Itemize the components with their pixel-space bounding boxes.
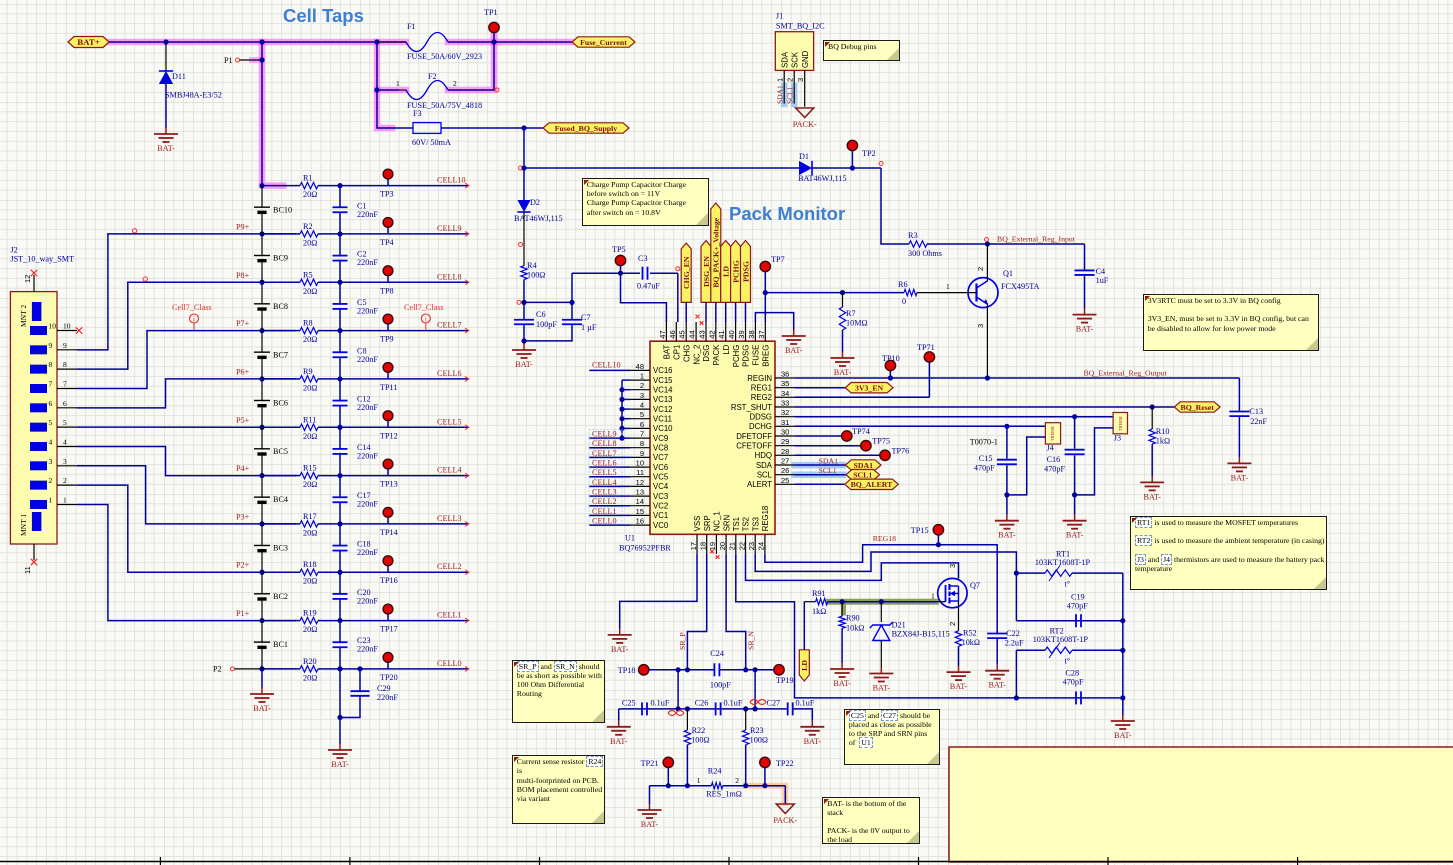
svg-text:BAT-: BAT- xyxy=(331,760,349,769)
wire TS3 net xyxy=(755,552,1016,573)
wire VC stub xyxy=(622,379,631,381)
junction row2 cap xyxy=(337,570,342,575)
port BQ_ALERT xyxy=(845,479,899,489)
junction VC bus xyxy=(619,387,624,392)
svg-text:VC5: VC5 xyxy=(653,473,669,482)
svg-text:220nF: 220nF xyxy=(357,258,378,267)
wire to R3 xyxy=(881,168,909,244)
wire SCL net xyxy=(795,474,846,476)
svg-text:7: 7 xyxy=(49,379,53,388)
wire supply to D1 xyxy=(524,167,799,169)
svg-text:RST_SHUT: RST_SHUT xyxy=(731,403,772,412)
wire shunt left ground xyxy=(649,786,651,804)
svg-text:11: 11 xyxy=(23,566,32,574)
ground BAT- cell ladder xyxy=(339,744,341,750)
wire VC stub xyxy=(622,427,631,429)
wire J2 pin 8 fan xyxy=(77,282,296,369)
svg-text:CHG_EN: CHG_EN xyxy=(682,256,691,289)
wire SDA net xyxy=(795,464,846,466)
svg-text:10MΩ: 10MΩ xyxy=(846,319,868,328)
svg-text:TP20: TP20 xyxy=(380,673,398,682)
svg-text:1: 1 xyxy=(640,372,644,381)
junction row0 left xyxy=(259,666,264,671)
junction row1 left xyxy=(259,618,264,623)
resistor R11 20ohm xyxy=(296,426,300,428)
svg-text:VC1: VC1 xyxy=(653,511,668,520)
svg-text:C15: C15 xyxy=(979,454,993,463)
svg-text:470pF: 470pF xyxy=(1063,678,1084,687)
svg-text:7: 7 xyxy=(640,430,644,439)
transistor Q7 MOSFET xyxy=(938,578,967,607)
wire BAT+ main xyxy=(109,41,406,43)
svg-text:CHG: CHG xyxy=(682,345,691,362)
svg-text:BC9: BC9 xyxy=(273,254,288,263)
svg-text:2: 2 xyxy=(948,622,957,626)
svg-text:J2: J2 xyxy=(10,246,17,255)
svg-text:Cell7_Class: Cell7_Class xyxy=(404,303,444,312)
capacitor C3 0.47uF xyxy=(642,267,644,280)
port BAT+ xyxy=(68,37,109,48)
svg-text:R17: R17 xyxy=(303,512,317,521)
no-connect pin44 xyxy=(696,315,700,319)
wire node to C7 xyxy=(524,301,572,303)
wire VC stub xyxy=(622,389,631,391)
svg-text:SCL1: SCL1 xyxy=(786,86,795,104)
wire TS2 net xyxy=(746,554,959,581)
svg-text:D21: D21 xyxy=(892,621,906,630)
svg-text:DFETOFF: DFETOFF xyxy=(736,432,772,441)
U1 left pin 11 VC5 xyxy=(631,476,650,478)
capacitor C4 1uF xyxy=(1084,244,1086,270)
wire J2 pin 6 fan xyxy=(77,379,296,408)
svg-text:CELL10: CELL10 xyxy=(437,176,466,185)
svg-text:45: 45 xyxy=(678,330,687,338)
svg-text:J1: J1 xyxy=(776,12,783,21)
svg-text:TP14: TP14 xyxy=(380,528,398,537)
wire RT1 row xyxy=(1016,572,1045,574)
wire J2 pin 7 fan xyxy=(77,331,296,389)
wire Q1 emitter xyxy=(986,305,988,379)
svg-text:VC14: VC14 xyxy=(653,386,673,395)
testpoint TP9 xyxy=(387,324,389,331)
svg-text:TP74: TP74 xyxy=(852,427,870,436)
svg-text:VC10: VC10 xyxy=(653,424,673,433)
note SR_P SR_N routing xyxy=(512,660,605,723)
testpoint TP12 xyxy=(387,420,389,427)
connector J2 pin 8 xyxy=(30,365,47,374)
resistor R24 RES_1mOhm xyxy=(711,783,722,789)
junction row6 left xyxy=(259,376,264,381)
wire HDQ to TP76 xyxy=(795,454,885,456)
U1 right pin 25 ALERT xyxy=(775,483,795,485)
svg-text:2.2uF: 2.2uF xyxy=(1005,639,1024,648)
junction F2 trunk xyxy=(374,87,379,92)
wire row CELL4 right xyxy=(322,475,468,477)
svg-text:16: 16 xyxy=(636,517,644,526)
capacitor BC7 battery cell xyxy=(261,331,263,353)
U1 top pin 40 PCHG xyxy=(735,322,737,341)
wire J2 pin5 to P5+ xyxy=(77,426,296,428)
svg-text:20Ω: 20Ω xyxy=(303,383,317,392)
svg-text:SCL1: SCL1 xyxy=(853,471,872,480)
wire DDSG net xyxy=(795,416,1114,418)
svg-text:BQ_External_Reg_Input: BQ_External_Reg_Input xyxy=(997,235,1076,244)
svg-text:C25: C25 xyxy=(622,699,636,708)
svg-text:0.1uF: 0.1uF xyxy=(796,699,815,708)
svg-text:2: 2 xyxy=(786,78,795,82)
wire DFETOFF to TP74 xyxy=(795,435,847,437)
svg-text:R24: R24 xyxy=(708,767,722,776)
wire row CELL10 right xyxy=(322,185,468,187)
junction fused supply xyxy=(521,125,526,130)
capacitor BC10 battery cell xyxy=(261,186,263,208)
svg-text:D11: D11 xyxy=(172,72,186,81)
junction C16 top xyxy=(1072,414,1077,419)
svg-text:1: 1 xyxy=(946,282,950,291)
svg-text:MNT 2: MNT 2 xyxy=(19,305,28,327)
svg-text:27: 27 xyxy=(781,457,789,466)
svg-text:SDA: SDA xyxy=(781,51,790,68)
svg-text:PACK-: PACK- xyxy=(793,120,817,129)
junction C6 C7 bottom xyxy=(521,338,526,343)
svg-text:TP17: TP17 xyxy=(380,625,398,634)
junction row5 cap xyxy=(337,425,342,430)
capacitor BC2 battery cell xyxy=(261,572,263,594)
junction BQ ext reg input xyxy=(985,241,990,246)
svg-text:103KT1608T-1P: 103KT1608T-1P xyxy=(1035,558,1091,567)
junction row3 left xyxy=(259,521,264,526)
svg-text:BAT46WJ,115: BAT46WJ,115 xyxy=(514,214,563,223)
svg-text:R90: R90 xyxy=(846,614,860,623)
port Fused_BQ_Supply xyxy=(543,123,629,133)
U1 bottom pin 24 REG18 xyxy=(764,534,766,554)
svg-text:28: 28 xyxy=(781,447,789,456)
wire J2 pin 9 fan xyxy=(77,234,296,350)
wire row CELL0 right xyxy=(322,668,468,670)
svg-text:20Ω: 20Ω xyxy=(303,335,317,344)
svg-text:DDSG: DDSG xyxy=(749,413,772,422)
svg-text:BAT-: BAT- xyxy=(1076,325,1094,334)
svg-text:220nF: 220nF xyxy=(377,693,398,702)
svg-text:HDQ: HDQ xyxy=(755,451,772,460)
svg-text:R18: R18 xyxy=(303,560,317,569)
connector J2 pin 2 xyxy=(30,481,47,490)
wire row CELL5 right xyxy=(322,426,468,428)
capacitor BC8 battery cell xyxy=(261,282,263,304)
junction row4 cap xyxy=(337,473,342,478)
op-amp U1 BQ76952PFBR body xyxy=(650,341,775,534)
svg-text:BAT-: BAT- xyxy=(1066,531,1084,540)
svg-text:20Ω: 20Ω xyxy=(303,287,317,296)
testpoint TP74 xyxy=(842,431,852,441)
wire VC stub xyxy=(622,418,631,420)
svg-text:CELL3: CELL3 xyxy=(592,488,617,497)
svg-text:CELL6: CELL6 xyxy=(437,369,462,378)
junction VC bus xyxy=(619,416,624,421)
connector J2 pin 9 xyxy=(30,345,47,354)
ground BAT- under D21 xyxy=(880,668,882,674)
svg-text:1kΩ: 1kΩ xyxy=(812,607,826,616)
svg-text:10: 10 xyxy=(636,459,644,468)
ground BAT- FUSE pin xyxy=(793,330,795,336)
resistor R15 20ohm xyxy=(296,475,300,477)
svg-text:BQ_ALERT: BQ_ALERT xyxy=(851,480,894,489)
svg-text:JST_10_way_SMT: JST_10_way_SMT xyxy=(10,255,74,264)
svg-text:R15: R15 xyxy=(303,464,317,473)
U1 right pin 35 REG1 xyxy=(775,387,795,389)
svg-text:FUSE: FUSE xyxy=(752,345,761,366)
svg-text:DCHG: DCHG xyxy=(749,422,772,431)
svg-text:2: 2 xyxy=(976,267,985,271)
wire Q1 collector xyxy=(986,244,988,281)
svg-text:Pack Monitor: Pack Monitor xyxy=(729,203,845,224)
testpoint TP22 xyxy=(764,768,766,786)
svg-text:41: 41 xyxy=(717,330,726,338)
note BQ Debug pins xyxy=(823,40,900,61)
U1 top pin 38 FUSE xyxy=(754,322,756,341)
svg-text:5: 5 xyxy=(640,410,644,419)
svg-text:R4: R4 xyxy=(527,261,537,270)
capacitor C2 220nF xyxy=(339,234,341,256)
wire RT2 vertical left xyxy=(1015,650,1017,698)
capacitor C13 22nF xyxy=(1238,378,1240,411)
svg-text:Q7: Q7 xyxy=(970,581,980,590)
svg-text:C7: C7 xyxy=(581,313,591,322)
svg-text:0.47uF: 0.47uF xyxy=(637,282,660,291)
svg-text:17: 17 xyxy=(689,542,698,550)
svg-text:BAT46WJ,115: BAT46WJ,115 xyxy=(798,174,847,183)
thermistor J3 xyxy=(1113,413,1127,434)
net highlight PACK- (orange) xyxy=(746,786,786,803)
junction row0 cap xyxy=(337,666,342,671)
svg-text:J3: J3 xyxy=(1114,434,1121,443)
wire VSS to ground xyxy=(620,554,697,629)
svg-text:P1+: P1+ xyxy=(236,609,250,618)
svg-text:ALERT: ALERT xyxy=(747,480,772,489)
svg-text:20: 20 xyxy=(718,542,727,550)
svg-text:Q1: Q1 xyxy=(1003,269,1013,278)
U1 right pin 26 SCL xyxy=(775,474,795,476)
svg-text:4: 4 xyxy=(49,437,53,446)
svg-text:12: 12 xyxy=(23,275,32,283)
svg-text:TP18: TP18 xyxy=(618,666,636,675)
wire cap filter row xyxy=(619,708,788,710)
svg-text:C24: C24 xyxy=(710,649,724,658)
svg-text:42: 42 xyxy=(707,330,716,338)
U1 left pin 4 VC12 xyxy=(631,408,650,410)
svg-text:Cell Taps: Cell Taps xyxy=(283,5,364,26)
connector J2 pin 7 xyxy=(30,384,47,393)
svg-text:33: 33 xyxy=(781,399,789,408)
capacitor C12 220nF xyxy=(339,379,341,401)
U1 top pin 45 CHG xyxy=(685,322,687,341)
capacitor C19 470pF xyxy=(1075,614,1077,627)
testpoint TP16 xyxy=(387,565,389,572)
testpoint TP17 xyxy=(387,614,389,621)
svg-text:3: 3 xyxy=(796,78,805,82)
U1 top pin 44 NC_2 xyxy=(695,322,697,341)
svg-text:47: 47 xyxy=(658,330,667,338)
svg-text:VC3: VC3 xyxy=(653,492,668,501)
U1 left pin 48 VC16 xyxy=(631,369,650,371)
port DSG_EN xyxy=(701,241,711,303)
svg-text:R1: R1 xyxy=(303,174,313,183)
capacitor BC4 battery cell xyxy=(261,476,263,498)
svg-text:T0070-1: T0070-1 xyxy=(970,438,998,447)
capacitor C22 2.2uF xyxy=(987,633,1007,635)
svg-text:100Ω: 100Ω xyxy=(691,736,709,745)
svg-text:TP71: TP71 xyxy=(917,343,935,352)
svg-text:VC15: VC15 xyxy=(653,376,673,385)
testpoint TP8 xyxy=(387,275,389,282)
svg-text:CELL6: CELL6 xyxy=(592,459,617,468)
resistor R90 10k xyxy=(841,602,843,617)
svg-text:C19: C19 xyxy=(1071,593,1085,602)
diode D1 xyxy=(799,161,812,175)
connector J2 pin 1 xyxy=(30,500,47,509)
wire SR_N vertical xyxy=(754,670,756,709)
svg-text:Fused_BQ_Supply: Fused_BQ_Supply xyxy=(555,124,618,133)
svg-text:BQ_PACK+_Voltage: BQ_PACK+_Voltage xyxy=(712,217,721,287)
resistor R22 100ohm xyxy=(686,709,688,730)
testpoint TP3 xyxy=(387,179,389,186)
port SDA1 xyxy=(846,460,882,470)
junction TP2 xyxy=(850,165,855,170)
svg-text:P4+: P4+ xyxy=(236,464,250,473)
junction TP22 xyxy=(762,783,767,788)
wire R3 out xyxy=(927,243,1085,245)
U1 right pin 30 DFETOFF xyxy=(775,435,795,437)
svg-text:TP16: TP16 xyxy=(380,576,398,585)
junction C29 bottom xyxy=(337,715,342,720)
resistor R52 10k xyxy=(955,631,961,647)
svg-text:220nF: 220nF xyxy=(357,500,378,509)
capacitor C16 470pF xyxy=(1074,417,1076,449)
svg-text:THERM: THERM xyxy=(1050,426,1055,441)
resistor R6 0 xyxy=(904,289,917,295)
svg-text:2: 2 xyxy=(453,79,457,88)
svg-text:PCHG: PCHG xyxy=(732,345,741,368)
U1 left pin 15 VC1 xyxy=(631,514,650,516)
svg-text:R3: R3 xyxy=(908,231,918,240)
U1 right pin 28 HDQ xyxy=(775,454,795,456)
U1 bottom pin 21 TS1 xyxy=(735,534,737,554)
svg-text:P5+: P5+ xyxy=(236,416,250,425)
svg-text:TP1: TP1 xyxy=(484,8,498,17)
svg-text:1: 1 xyxy=(63,495,67,504)
svg-text:R10: R10 xyxy=(1156,427,1170,436)
wire LD to R91 row xyxy=(803,602,805,650)
ground BAT- under C13 xyxy=(1238,457,1240,463)
svg-text:C16: C16 xyxy=(1047,455,1061,464)
svg-text:BAT-: BAT- xyxy=(611,645,629,654)
junction Q1 emitter xyxy=(985,375,990,380)
junction C19 right xyxy=(1120,618,1125,623)
capacitor C8 220nF xyxy=(339,331,341,353)
svg-text:BAT-: BAT- xyxy=(988,681,1006,690)
wire R91 to Q7 gate xyxy=(828,601,938,603)
svg-text:60V/ 50mA: 60V/ 50mA xyxy=(412,138,451,147)
testpoint TP13 xyxy=(387,469,389,476)
capacitor C24 100pF xyxy=(713,663,715,676)
svg-text:0: 0 xyxy=(902,297,906,306)
U1 left pin 8 VC8 xyxy=(631,447,650,449)
svg-text:220nF: 220nF xyxy=(357,403,378,412)
connector J2 pin 5 xyxy=(30,423,47,432)
junction TP21 xyxy=(666,783,671,788)
wire RT1 vertical right xyxy=(1122,573,1124,715)
wire D2 to R4 xyxy=(523,212,525,266)
wire TP18 row xyxy=(649,669,714,671)
svg-text:10: 10 xyxy=(63,322,71,331)
net highlight SDA1/SCL1 (light blue) xyxy=(795,462,843,469)
svg-text:20Ω: 20Ω xyxy=(303,190,317,199)
junction SR_P b xyxy=(685,667,690,672)
svg-text:35: 35 xyxy=(781,379,789,388)
svg-text:CELL7: CELL7 xyxy=(437,321,462,330)
svg-text:20Ω: 20Ω xyxy=(303,673,317,682)
svg-text:BREG: BREG xyxy=(762,345,771,367)
svg-text:BAT-: BAT- xyxy=(641,820,659,829)
svg-text:220nF: 220nF xyxy=(357,355,378,364)
svg-text:40: 40 xyxy=(727,330,736,338)
svg-text:TS2: TS2 xyxy=(742,517,751,531)
svg-text:22nF: 22nF xyxy=(1250,417,1267,426)
capacitor BC6 battery cell xyxy=(261,379,263,401)
svg-text:VC13: VC13 xyxy=(653,395,673,404)
junction SR_N a xyxy=(743,667,748,672)
svg-text:44: 44 xyxy=(688,330,697,338)
svg-text:8: 8 xyxy=(63,360,67,369)
svg-text:NC_2: NC_2 xyxy=(692,345,701,365)
svg-text:SDA: SDA xyxy=(756,461,773,470)
wire SRN jog xyxy=(726,554,746,670)
svg-text:MNT 1: MNT 1 xyxy=(19,514,28,536)
wire R4 to C6 xyxy=(523,280,525,320)
U1 left pin 14 VC2 xyxy=(631,505,650,507)
svg-text:SRN: SRN xyxy=(722,515,731,531)
ground BAT- under C4 xyxy=(1084,309,1086,315)
svg-text:TP2: TP2 xyxy=(862,149,876,158)
capacitor C26 0.1uF xyxy=(715,702,717,715)
svg-text:TP75: TP75 xyxy=(872,437,890,446)
junction RT2 bottom xyxy=(1014,695,1019,700)
capacitor C23 220nF xyxy=(339,621,341,643)
svg-text:LD: LD xyxy=(722,344,731,354)
wire BREG to R6 xyxy=(765,292,904,294)
svg-text:470pF: 470pF xyxy=(974,464,995,473)
U1 right pin 31 DCHG xyxy=(775,425,795,427)
svg-text:C26: C26 xyxy=(695,699,709,708)
note C25 C27 placement xyxy=(844,709,940,766)
svg-text:BAT-: BAT- xyxy=(610,737,628,746)
testpoint TP14 xyxy=(387,517,389,524)
svg-text:5: 5 xyxy=(63,418,67,427)
resistor R2 20ohm xyxy=(296,233,300,235)
svg-text:0.1uF: 0.1uF xyxy=(724,699,743,708)
svg-text:BAT-: BAT- xyxy=(834,368,852,377)
svg-text:R22: R22 xyxy=(692,726,706,735)
junction row8 left xyxy=(259,280,264,285)
note 3V3RTC xyxy=(1143,294,1319,351)
svg-text:CELL0: CELL0 xyxy=(437,659,462,668)
svg-text:20Ω: 20Ω xyxy=(303,432,317,441)
resistor R10 1k xyxy=(1151,407,1153,429)
U1 bottom pin 23 TS3 xyxy=(754,534,756,554)
wire TP19 row xyxy=(720,669,774,671)
svg-text:470pF: 470pF xyxy=(1067,602,1088,611)
svg-text:4: 4 xyxy=(63,437,67,446)
